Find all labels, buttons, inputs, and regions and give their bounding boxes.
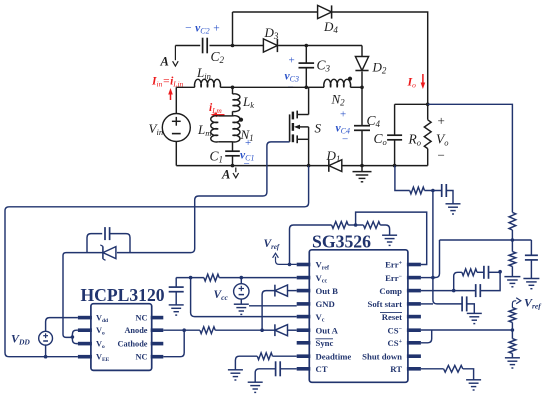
svg-text:+: + bbox=[245, 137, 251, 149]
svg-text:SG3526: SG3526 bbox=[312, 232, 371, 252]
svg-text:−: − bbox=[342, 134, 348, 146]
label Iin=iLin (red) bbox=[151, 76, 184, 89]
wire comp branch up bbox=[454, 272, 462, 290]
svg-text:HCPL3120: HCPL3120 bbox=[81, 285, 165, 305]
capacitor CT bbox=[276, 361, 281, 376]
ground right divider bbox=[504, 277, 520, 287]
label vC3 (blue) bbox=[285, 55, 299, 94]
wire Soft start pin lead bbox=[421, 303, 433, 305]
wire C4 top lead bbox=[361, 87, 363, 125]
wire CT lead bbox=[280, 368, 297, 370]
svg-text:+: + bbox=[289, 55, 295, 67]
transistor S (MOSFET) bbox=[290, 111, 322, 144]
wire riser from C2 line to top rail bbox=[232, 12, 234, 46]
wire snubber left vertical bbox=[63, 253, 71, 338]
resistor comp bbox=[462, 269, 477, 276]
capacitor sense bbox=[442, 184, 447, 197]
capacitor Vcc filter bbox=[169, 287, 184, 292]
label Vref (left of SG3526) bbox=[264, 238, 297, 265]
resistor chain R1 bbox=[332, 222, 349, 229]
diode OutB bbox=[275, 285, 288, 297]
capacitor snubber bbox=[87, 227, 130, 253]
resistor Vcc bbox=[204, 274, 219, 281]
svg-text:Deadtime: Deadtime bbox=[316, 351, 352, 361]
node A (top) stub and arrow bbox=[160, 46, 179, 69]
wire D2 top lead bbox=[361, 46, 363, 57]
node MOSFET source junction bbox=[307, 164, 311, 168]
svg-text:Out B: Out B bbox=[316, 286, 339, 296]
label output Vo bbox=[436, 113, 449, 163]
label vC2 (blue) bbox=[185, 23, 221, 36]
capacitor comp series bbox=[484, 266, 489, 279]
wire C4 bottom lead bbox=[361, 130, 363, 165]
resistor vref bottom bbox=[509, 339, 516, 354]
wire chain to ground bbox=[380, 225, 389, 235]
wire OutA pin lead bbox=[288, 329, 297, 331]
svg-text:Out A: Out A bbox=[316, 325, 339, 335]
wire CS+ line bbox=[421, 330, 432, 343]
wire RT lead bbox=[421, 368, 444, 370]
wire Co top lead bbox=[394, 104, 396, 135]
svg-text:NC: NC bbox=[136, 353, 148, 362]
winding N2 bbox=[324, 79, 351, 107]
capacitor C1 bbox=[210, 149, 240, 165]
svg-text:RT: RT bbox=[390, 364, 402, 374]
wire Vin top lead bbox=[175, 87, 177, 113]
wire junction to C3 bottom / drain bbox=[233, 86, 309, 90]
ground Vcc source bbox=[234, 304, 249, 314]
svg-text:NC: NC bbox=[136, 314, 148, 323]
inductor Lk bbox=[233, 94, 255, 112]
wire Vdd pin lead bbox=[46, 318, 78, 332]
wire anode line right bbox=[215, 329, 262, 331]
wire C1 to rail bbox=[231, 156, 235, 168]
wire vref divider to ground bbox=[511, 353, 513, 357]
wire right cap branch bbox=[530, 240, 532, 255]
wire Vcc to resistor bbox=[219, 277, 241, 279]
wire Vcc resistor to cap corner bbox=[176, 276, 204, 280]
wire OutB diode to corner bbox=[260, 291, 275, 332]
wire Err+ connection bbox=[356, 212, 427, 264]
svg-text:Anode: Anode bbox=[124, 326, 147, 335]
svg-text:Sync: Sync bbox=[316, 338, 334, 348]
svg-text:−: − bbox=[438, 148, 445, 163]
wire from node A to C2 bbox=[175, 45, 200, 47]
wire comp R to cap bbox=[477, 271, 484, 273]
wire Lin to junction bbox=[220, 86, 232, 88]
polarity dot N2 bbox=[348, 77, 352, 81]
wire feedback line y240 bbox=[433, 240, 532, 278]
diode D1 bbox=[326, 148, 342, 172]
node junction Lin/Lk bbox=[231, 86, 235, 90]
wire VDD bottom lead bbox=[45, 345, 47, 357]
resistor anode bbox=[200, 327, 215, 334]
diode D4 bbox=[318, 5, 339, 35]
resistor divider bottom bbox=[509, 252, 516, 267]
op-amp U2 (SG3526 controller IC) bbox=[297, 232, 421, 383]
red arrow iLm bbox=[211, 113, 225, 118]
resistor deadtime bbox=[257, 353, 272, 360]
wire bottom rail right bbox=[342, 164, 428, 168]
svg-text:Cathode: Cathode bbox=[118, 340, 148, 349]
capacitor C4 bbox=[354, 113, 381, 130]
diode snubber bbox=[66, 245, 116, 260]
capacitor comp parallel bbox=[476, 284, 481, 297]
wire D2 bottom lead bbox=[361, 72, 363, 88]
wire to ground bbox=[511, 266, 513, 276]
wire top rail right segment with corner down to output node bbox=[332, 12, 428, 120]
svg-text:−: − bbox=[244, 158, 250, 170]
polarity dot N1 bbox=[239, 118, 243, 122]
svg-text:GND: GND bbox=[316, 299, 335, 309]
wire Vcc source bottom bbox=[240, 299, 242, 304]
wire Deadtime lead bbox=[273, 355, 297, 357]
wire GND pin line bbox=[249, 305, 297, 307]
ground deadtime bbox=[228, 370, 243, 380]
wire OutB pin lead bbox=[288, 290, 297, 292]
wire Vc line bbox=[191, 278, 297, 317]
node Vref junction bbox=[288, 263, 292, 267]
label Vref (bottom right) bbox=[512, 296, 542, 311]
wire Comp line bbox=[421, 289, 476, 293]
wire comp cap out bbox=[489, 271, 501, 273]
ground soft start bbox=[467, 313, 482, 323]
wire C3 bottom lead bbox=[305, 68, 307, 88]
wire gate drive path bbox=[117, 142, 290, 253]
resistor Ro bbox=[408, 120, 432, 149]
red arrow Iin bbox=[168, 88, 173, 100]
ground resistor chain bbox=[382, 235, 397, 245]
transformer bottom bar bbox=[218, 141, 232, 143]
label Io (red) bbox=[407, 75, 417, 90]
wire top rail left segment bbox=[233, 11, 318, 13]
ground vref divider bbox=[505, 358, 520, 368]
svg-text:S: S bbox=[315, 121, 322, 136]
ground RT bbox=[466, 380, 481, 390]
label vC1 (blue) bbox=[240, 137, 254, 170]
resistor RT bbox=[444, 365, 463, 372]
diode D2 bbox=[355, 57, 386, 76]
wire source lead to rail bbox=[308, 127, 310, 166]
source Vcc bbox=[214, 284, 250, 303]
node A (bottom) label and arrow bbox=[221, 168, 239, 182]
ground sense bbox=[446, 204, 461, 214]
winding N1 bbox=[233, 116, 254, 143]
wire deadtime to ground bbox=[235, 356, 257, 370]
wire sense cap to ground bbox=[446, 191, 453, 204]
node snubber to Vo junction bbox=[70, 336, 72, 338]
transformer top bar bbox=[218, 115, 232, 117]
wire OutA diode to junction bbox=[262, 329, 275, 331]
wire Vin bottom lead bbox=[175, 142, 177, 166]
svg-text:A: A bbox=[221, 168, 230, 182]
wire Co bottom lead bbox=[394, 140, 396, 166]
wire C3 top lead bbox=[305, 46, 307, 64]
wire Vref riser bbox=[290, 225, 332, 264]
resistor divider top bbox=[509, 212, 516, 230]
wire CS- line bbox=[421, 328, 514, 332]
wire vref divider mid bbox=[511, 322, 513, 338]
source VDD bbox=[11, 331, 52, 346]
svg-text:Comp: Comp bbox=[379, 286, 402, 296]
wire right cap to ground bbox=[530, 260, 532, 279]
resistor vref top bbox=[509, 308, 516, 323]
wire divider mid bbox=[511, 230, 515, 252]
wire junction to Lk bbox=[232, 87, 234, 94]
wire CT to ground bbox=[255, 369, 275, 382]
wire anode to NC pin bbox=[163, 330, 184, 357]
capacitor C3 bbox=[299, 58, 331, 74]
ground Vcc cap bbox=[169, 305, 184, 315]
svg-text:Reset: Reset bbox=[382, 312, 402, 322]
wire Vcc cap lead bbox=[175, 278, 177, 288]
svg-text:A: A bbox=[160, 55, 169, 69]
ground CT bbox=[248, 382, 263, 392]
wire drain lead bbox=[308, 87, 310, 114]
wire transformer to C1 bbox=[232, 142, 234, 151]
resistor chain R2 bbox=[363, 222, 380, 229]
source Vin bbox=[149, 114, 191, 142]
label iLm (red) bbox=[209, 102, 222, 115]
inductor Lm winding bbox=[197, 116, 218, 142]
inductor Lin bbox=[195, 65, 221, 87]
capacitor soft start bbox=[462, 296, 467, 311]
wire Err- pin lead bbox=[421, 277, 433, 279]
label vC4 (blue) bbox=[336, 109, 350, 146]
wire C2 to D3 bbox=[210, 44, 264, 48]
ground power stage bbox=[353, 166, 372, 182]
wire bottom rail left bbox=[176, 165, 328, 167]
svg-text:CT: CT bbox=[316, 364, 328, 374]
resistor sense bbox=[410, 187, 425, 194]
wire comp cap to riser bbox=[480, 270, 502, 291]
svg-text:+: + bbox=[438, 113, 445, 128]
wire drain junction to N2 bbox=[309, 86, 324, 88]
wire Vcc source top bbox=[240, 278, 242, 284]
wire Ro bottom lead bbox=[427, 149, 429, 166]
wire feedback vertical to Err- and Soft start bbox=[431, 191, 462, 304]
wire RT to ground bbox=[463, 369, 474, 380]
wire soft start cap to ground bbox=[467, 304, 475, 314]
wire output node to right divider bbox=[428, 104, 513, 212]
svg-text:Shut down: Shut down bbox=[362, 351, 402, 361]
wire Vin top to Lin bbox=[176, 86, 194, 88]
svg-text:Soft start: Soft start bbox=[368, 299, 403, 309]
wire Co top to output node bbox=[395, 103, 430, 107]
svg-text:+: + bbox=[340, 109, 346, 121]
wire Vcc cap to ground bbox=[175, 292, 177, 305]
diode D3 bbox=[263, 25, 278, 52]
wire chain mid bbox=[348, 223, 363, 227]
capacitor C2 bbox=[203, 38, 225, 65]
wire sense tap from rail bbox=[395, 166, 410, 191]
diode OutA bbox=[275, 324, 288, 336]
wire Vo bracket bbox=[71, 330, 78, 343]
red arrow Io bbox=[421, 74, 426, 89]
capacitor Co bbox=[374, 131, 403, 147]
capacitor right filter bbox=[525, 255, 538, 260]
ground right cap bbox=[523, 279, 539, 289]
wire anode line left bbox=[163, 328, 200, 332]
wire D3 to D2 branch bbox=[278, 44, 362, 48]
wire Lk to transformer top bar bbox=[232, 111, 234, 116]
wire Vcc pin line bbox=[240, 276, 297, 280]
op-amp U1 (HCPL3120 gate driver IC) bbox=[78, 285, 165, 371]
wire sense to cap bbox=[425, 189, 442, 193]
wire gate return line bbox=[5, 166, 309, 359]
wire N2 to C4 branch bbox=[350, 86, 363, 90]
